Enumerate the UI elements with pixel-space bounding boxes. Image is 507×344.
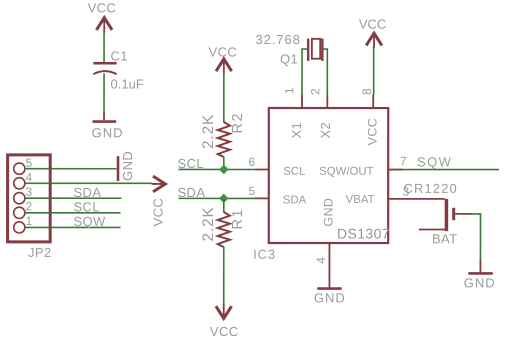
- pin 3 of JP2: [14, 193, 25, 204]
- svg-text:SCL: SCL: [283, 166, 305, 178]
- svg-text:SDA: SDA: [177, 185, 205, 200]
- svg-text:VCC: VCC: [209, 44, 238, 59]
- svg-text:IC3: IC3: [253, 247, 276, 262]
- supply VCC (top-right, at pin 8): [359, 17, 386, 48]
- svg-text:SQW: SQW: [417, 154, 452, 169]
- wire JP2 pin4 to VCC arrow: [25, 182, 152, 184]
- svg-text:BAT: BAT: [432, 231, 458, 246]
- IC U=IC3 DS1307 body: [253, 108, 390, 262]
- resistor R2: [200, 112, 246, 157]
- svg-text:Q1: Q1: [280, 52, 298, 67]
- svg-text:SDA: SDA: [73, 185, 101, 200]
- svg-text:VCC: VCC: [359, 17, 386, 32]
- svg-text:JP2: JP2: [28, 245, 52, 260]
- svg-text:8: 8: [360, 88, 374, 95]
- wire VCC to pin 8: [373, 46, 375, 95]
- svg-text:1: 1: [25, 214, 32, 228]
- svg-text:2: 2: [308, 88, 322, 95]
- svg-text:GND: GND: [464, 275, 496, 290]
- pin 3 stub (VBAT): [388, 198, 402, 200]
- svg-text:GND: GND: [314, 290, 346, 305]
- wire JP2 pin2 (SCL): [25, 212, 120, 214]
- ground under C1: [92, 112, 124, 140]
- svg-text:32.768: 32.768: [256, 32, 301, 47]
- svg-text:1: 1: [282, 87, 296, 94]
- pin 1 stub (X1): [301, 95, 303, 109]
- svg-text:SQW: SQW: [73, 214, 106, 229]
- svg-text:VBAT: VBAT: [346, 194, 375, 206]
- svg-text:GND: GND: [120, 151, 135, 181]
- junction SDA node: [219, 194, 229, 204]
- ground at battery: [464, 259, 496, 291]
- svg-text:X2: X2: [318, 122, 333, 139]
- svg-text:R1: R1: [230, 208, 246, 230]
- svg-text:2: 2: [25, 199, 32, 213]
- svg-text:5: 5: [26, 156, 33, 170]
- ground at JP2 pin5 (rotated): [118, 151, 135, 181]
- svg-text:0.1uF: 0.1uF: [111, 76, 144, 91]
- wire battery to GND: [471, 214, 481, 259]
- svg-text:7: 7: [400, 154, 407, 168]
- wire JP2 pin5 to ground: [25, 168, 116, 170]
- wire SDA net: [178, 197, 254, 199]
- wire C1 to GND: [103, 73, 105, 112]
- wire SDA to R1: [223, 198, 225, 212]
- svg-text:GND: GND: [92, 125, 124, 140]
- pin 6 stub (SCL): [255, 169, 269, 171]
- wire JP2 pin1 (SQW): [25, 226, 120, 228]
- capacitor C1: [93, 48, 144, 91]
- pin 7 stub (SQW/OUT): [388, 169, 402, 171]
- svg-text:CR1220: CR1220: [403, 181, 457, 196]
- svg-text:6: 6: [249, 155, 256, 169]
- pin 2 stub (X2): [326, 95, 328, 109]
- svg-text:GND: GND: [321, 198, 335, 227]
- wire SCL net: [179, 168, 255, 170]
- wire JP2 pin3 (SDA): [25, 197, 121, 199]
- svg-text:3: 3: [25, 185, 32, 199]
- pin 5 of JP2: [14, 163, 25, 174]
- pin 4 stub (GND): [328, 243, 330, 258]
- svg-text:R2: R2: [230, 112, 246, 134]
- wire X1 to crystal: [302, 49, 307, 95]
- wire VCC to R2: [223, 73, 225, 123]
- wire R2 to SCL net: [223, 156, 225, 169]
- svg-text:VCC: VCC: [150, 198, 165, 227]
- svg-text:SDA: SDA: [283, 194, 307, 206]
- svg-text:2.2K: 2.2K: [200, 114, 217, 149]
- resistor R1: [200, 206, 246, 247]
- svg-text:X1: X1: [289, 122, 304, 139]
- svg-text:5: 5: [248, 184, 255, 198]
- svg-text:4: 4: [314, 257, 328, 264]
- supply VCC (right-pointing, at JP2 pin4): [150, 176, 165, 226]
- crystal Q1: [256, 32, 323, 67]
- svg-text:SCL: SCL: [177, 156, 204, 171]
- svg-text:C1: C1: [111, 48, 128, 63]
- svg-text:4: 4: [25, 170, 32, 184]
- connector JP2: [8, 155, 52, 260]
- wire crystal to X2: [324, 49, 328, 95]
- wire pin7 SQW net: [403, 169, 499, 171]
- pin 1 of JP2: [14, 222, 25, 233]
- battery BAT: [419, 199, 472, 246]
- svg-text:SCL: SCL: [73, 199, 100, 214]
- svg-text:DS1307: DS1307: [337, 226, 390, 242]
- supply VCC (top-left): [88, 0, 117, 33]
- pin 4 of JP2: [14, 178, 25, 189]
- pin 5 stub (SDA): [255, 197, 269, 199]
- supply VCC (down arrow, below R1): [210, 303, 239, 339]
- svg-text:VCC: VCC: [210, 324, 239, 339]
- svg-text:VCC: VCC: [366, 118, 380, 146]
- supply VCC (above R2): [209, 44, 238, 74]
- svg-text:VCC: VCC: [88, 0, 117, 15]
- wire pin4 to ground: [328, 258, 330, 280]
- wire VCC to C1: [103, 31, 105, 62]
- svg-text:2.2K: 2.2K: [200, 206, 217, 241]
- ground at pin 4: [314, 279, 346, 305]
- svg-text:SQW/OUT: SQW/OUT: [319, 166, 373, 178]
- junction SCL node: [219, 165, 229, 175]
- pin 2 of JP2: [14, 207, 25, 218]
- wire pin3 VBAT to battery: [402, 198, 444, 200]
- pin 8 stub (VCC): [372, 95, 374, 109]
- wire R1 to VCC (down): [223, 246, 225, 304]
